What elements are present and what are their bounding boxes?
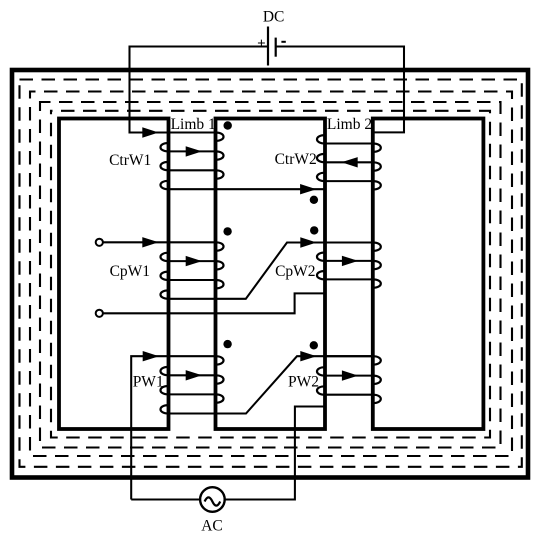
core outer boundary (12, 70, 528, 478)
svg-text:AC: AC (201, 518, 223, 535)
svg-text:+: + (257, 36, 266, 52)
winding PW1 (power winding, limb 1) (160, 356, 223, 413)
svg-text:DC: DC (263, 9, 285, 26)
flux path dashed line 1 (outermost) (20, 80, 522, 467)
polarity dot CtrW1 (224, 121, 232, 129)
wire CpW2 to terminal T2 (103, 293, 325, 313)
wire CpW1 to CpW2 (216, 237, 373, 298)
winding CpW2 (compensation winding, limb 2) (317, 243, 381, 288)
wire DC+ battery to CtrW1 (130, 47, 269, 138)
svg-text:PW2: PW2 (288, 373, 319, 390)
DC battery positive plate (long) (267, 27, 269, 66)
polarity dot PW2 (310, 341, 318, 349)
svg-text:PW1: PW1 (133, 373, 164, 390)
winding PW2 (power winding, limb 2) (317, 356, 381, 403)
wire CtrW1 to CtrW2 (216, 184, 326, 194)
winding CtrW2 (control winding, limb 2) (317, 135, 381, 189)
polarity dot CpW2 (310, 226, 318, 234)
wire AC to PW1 (131, 351, 168, 500)
polarity dot CtrW2 (310, 196, 318, 204)
flux path dashed line 4 (innermost) (51, 111, 490, 438)
svg-text:CtrW2: CtrW2 (275, 151, 317, 168)
wire PW1 to PW2 (216, 351, 373, 414)
wire PW2 to AC source (225, 407, 325, 500)
wire DC- battery to CtrW2 (276, 47, 404, 133)
core window left (59, 119, 169, 430)
winding CtrW1 (control winding, limb 1) (160, 133, 223, 190)
flux path dashed line 2 (30, 92, 512, 457)
terminal T2 (CpW output) (96, 310, 103, 317)
core window middle (216, 119, 326, 430)
svg-text:Limb 1: Limb 1 (171, 116, 216, 133)
AC source G1 (200, 487, 225, 512)
label - (281, 41, 285, 43)
polarity dot CpW1 (223, 227, 231, 235)
flux path dashed line 3 (40, 102, 501, 448)
svg-text:CpW1: CpW1 (110, 263, 150, 280)
wire T1 to CpW1 (103, 237, 169, 247)
svg-text:Limb 2: Limb 2 (327, 116, 372, 133)
svg-text:CpW2: CpW2 (275, 263, 315, 280)
terminal T1 (CpW input) (96, 239, 103, 246)
core window right (373, 119, 484, 430)
polarity dot PW1 (223, 340, 231, 348)
DC battery negative plate (short) (275, 38, 277, 57)
wire AC source to PW1 riser (131, 498, 200, 500)
winding CpW1 (compensation winding, limb 1) (160, 242, 223, 298)
svg-text:CtrW1: CtrW1 (109, 152, 151, 169)
